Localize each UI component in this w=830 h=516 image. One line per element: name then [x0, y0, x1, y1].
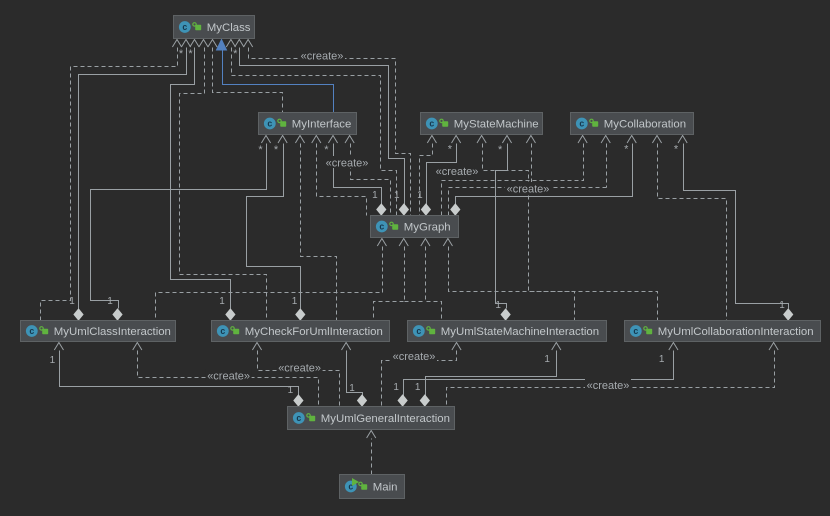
svg-text:*: * — [674, 144, 679, 156]
class box MyUmlGeneralInteraction — [288, 407, 455, 430]
wire aggregation MyUmlGeneralInteraction to MyUmlClassInteraction — [60, 351, 299, 398]
svg-text:«create»: «create» — [278, 363, 321, 375]
wire aggregation GI to MyUmlStateMachineInteraction — [426, 351, 557, 398]
class box MyCollaboration — [571, 113, 694, 135]
wire dependency Main to MyUmlGeneralInteraction — [371, 439, 373, 475]
svg-text:1: 1 — [417, 190, 423, 201]
svg-text:«create»: «create» — [436, 166, 479, 178]
svg-text:1: 1 — [288, 385, 294, 396]
svg-text:1: 1 — [69, 296, 75, 307]
svg-text:*: * — [179, 48, 184, 60]
wire aggregation MyCheckForUmlInteraction to MyClass — [171, 48, 231, 309]
svg-text:Main: Main — [373, 482, 398, 494]
class box MyCheckForUmlInteraction — [212, 321, 390, 342]
svg-text:1: 1 — [372, 190, 378, 201]
class box MyUmlStateMachineInteraction — [408, 321, 607, 342]
wire dependency to MyInterface via MyGraph corner — [317, 144, 367, 216]
wire aggregation GI to MyUmlCollaborationInteraction — [404, 351, 674, 398]
wire dependency MyUmlClassInteraction to MyClass — [41, 48, 178, 321]
svg-text:1: 1 — [292, 296, 298, 307]
wire create dependency GI to MyUmlCollaborationInteraction — [447, 351, 775, 407]
class box MyClass — [174, 16, 255, 39]
wire create dependency MyUmlCollaborationInteraction to MyCollaboration — [658, 144, 727, 321]
wire dependency MyUmlClassInteraction to MyGraph — [156, 247, 383, 321]
wire aggregation MyCheckForUmlInteraction to MyInterface — [247, 144, 301, 309]
wire dependency MyCollaboration stub — [606, 144, 608, 188]
svg-text:MyUmlStateMachineInteraction: MyUmlStateMachineInteraction — [441, 326, 599, 338]
wire dependency MyGraph to MyClass 2 — [232, 48, 397, 216]
wire aggregation MyUmlStateMachineInteraction to MyStateMachine — [496, 144, 508, 309]
svg-text:1: 1 — [415, 382, 421, 393]
wire dependency MyUmlCollaborationInteraction to MyGraph — [449, 247, 658, 321]
svg-text:*: * — [624, 144, 629, 156]
svg-text:*: * — [448, 144, 453, 156]
class box MyUmlClassInteraction — [21, 321, 176, 342]
svg-text:«create»: «create» — [326, 158, 369, 170]
svg-text:1: 1 — [219, 296, 225, 307]
svg-text:«create»: «create» — [507, 184, 550, 196]
wire create dependency MyGraph to MyClass — [249, 48, 411, 216]
svg-text:1: 1 — [349, 383, 355, 394]
wire dependency MyInterface to MyClass — [213, 48, 283, 113]
wire aggregation MyGraph to MyInterface — [334, 144, 382, 207]
svg-text:MyGraph: MyGraph — [404, 222, 451, 234]
svg-text:MyCollaboration: MyCollaboration — [604, 119, 686, 131]
wire dependency MyCheckForUmlInteraction to MyGraph — [374, 247, 405, 321]
wire dependency MyCheckForUmlInteraction to MyClass — [180, 48, 267, 321]
wire realization MyInterface extends MyClass (blue) — [223, 50, 334, 113]
svg-text:*: * — [258, 144, 263, 156]
wire aggregation MyGraph to MyCollaboration — [456, 144, 633, 207]
wire aggregation MyGraph to MyClass — [240, 48, 405, 207]
svg-text:MyUmlClassInteraction: MyUmlClassInteraction — [54, 326, 171, 338]
svg-text:1: 1 — [544, 354, 550, 365]
svg-text:«create»: «create» — [587, 380, 630, 392]
svg-text:MyUmlGeneralInteraction: MyUmlGeneralInteraction — [321, 413, 450, 425]
svg-text:*: * — [233, 48, 238, 60]
svg-text:1: 1 — [659, 354, 665, 365]
svg-text:MyClass: MyClass — [207, 22, 251, 34]
svg-text:1: 1 — [393, 382, 399, 393]
class box MyGraph — [371, 216, 459, 238]
svg-text:*: * — [498, 144, 503, 156]
wire dependency MyGraph to MyStateMachine — [420, 144, 433, 216]
svg-text:1: 1 — [495, 300, 501, 311]
wire dependency MyStateMachine stub — [531, 144, 533, 188]
svg-text:*: * — [274, 144, 279, 156]
svg-text:«create»: «create» — [207, 371, 250, 383]
wire create dependency MyUmlStateMachineInteraction to MyStateMachine — [483, 144, 575, 321]
svg-text:«create»: «create» — [301, 51, 344, 63]
svg-text:*: * — [324, 144, 329, 156]
class box MyStateMachine — [421, 113, 543, 135]
wire aggregation MyUmlClassInteraction to MyInterface — [91, 144, 267, 309]
wire dependency MyUmlStateMachineInteraction to MyGraph — [426, 247, 442, 321]
svg-text:1: 1 — [107, 296, 113, 307]
svg-text:*: * — [188, 48, 193, 60]
wire dependency channel MyGraph to MyCollaboration — [449, 188, 607, 216]
wire aggregation MyGraph to MyStateMachine — [427, 144, 457, 207]
wire aggregation MyUmlClassInteraction to MyClass — [79, 48, 187, 309]
wire create dependency GI to MyUmlStateMachineInteraction — [382, 351, 457, 407]
class box Main — [340, 475, 405, 499]
class box MyInterface — [259, 113, 357, 135]
wire dependency MyGraph to MyCollaboration — [442, 144, 584, 216]
wire dependency channel under MyGraph — [405, 301, 426, 303]
svg-text:MyUmlCollaborationInteraction: MyUmlCollaborationInteraction — [658, 326, 814, 338]
svg-text:1: 1 — [50, 355, 56, 366]
wire aggregation GI to MyCheckForUmlInteraction — [347, 351, 363, 398]
wire aggregation MyUmlCollaborationInteraction to MyCollaboration — [684, 144, 789, 309]
wire create dependency MyCheckForUml to MyInterface — [301, 144, 337, 321]
wire create dependency MyGraph to MyInterface — [351, 144, 391, 216]
svg-text:MyStateMachine: MyStateMachine — [454, 119, 539, 131]
class box MyUmlCollaborationInteraction — [625, 321, 821, 342]
wire create dependency GI to MyCheckForUmlInteraction — [258, 351, 340, 407]
wire create dependency GI to MyUmlClassInteraction — [138, 351, 319, 407]
svg-text:MyCheckForUmlInteraction: MyCheckForUmlInteraction — [245, 326, 383, 338]
svg-text:1: 1 — [779, 300, 785, 311]
svg-text:«create»: «create» — [393, 351, 436, 363]
svg-text:1: 1 — [394, 190, 400, 201]
blue inheritance arrowhead — [217, 40, 227, 51]
svg-text:MyInterface: MyInterface — [292, 119, 352, 131]
